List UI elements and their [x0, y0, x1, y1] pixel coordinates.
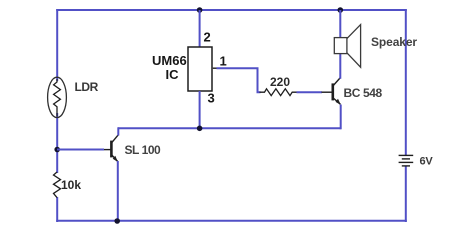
svg-text:2: 2 [204, 30, 211, 45]
node pin3 junction [197, 126, 203, 132]
node base junction [54, 147, 60, 153]
wire SL100 collector up [117, 127, 119, 135]
wire resistor to BC548 base [297, 91, 323, 93]
wire pin1 to resistor [217, 68, 261, 92]
speaker LS1 [334, 25, 360, 68]
wire right rail upper [405, 9, 407, 155]
wire SL100 emitter down [117, 161, 119, 222]
svg-text:IC: IC [166, 67, 180, 82]
node emitter-bottom junction [114, 218, 120, 224]
wire left rail upper [56, 9, 58, 81]
svg-text:Speaker: Speaker [371, 35, 417, 49]
wire bottom rail [56, 220, 407, 222]
wire SL100 base [57, 149, 104, 151]
svg-text:BC 548: BC 548 [344, 86, 383, 100]
IC U1 UM66 body [188, 47, 212, 91]
wire speaker/collector [339, 10, 341, 79]
node speaker junction [338, 7, 344, 13]
wire left rail lower [56, 197, 58, 222]
pin 1 stub [213, 67, 218, 69]
svg-text:220: 220 [270, 75, 290, 89]
LDR [48, 77, 67, 117]
svg-text:6V: 6V [420, 155, 434, 167]
node pin2 junction [197, 7, 203, 13]
svg-text:UM66: UM66 [152, 53, 187, 68]
transistor Q1 SL 100 [104, 135, 118, 162]
wire UM66 pin3 [199, 91, 201, 129]
svg-text:SL 100: SL 100 [125, 143, 162, 157]
resistor R 220 [260, 89, 298, 96]
svg-text:3: 3 [208, 91, 215, 106]
wire middle rail [118, 127, 341, 129]
wire left rail middle [56, 113, 58, 173]
wire top rail [56, 9, 407, 11]
wire UM66 pin2 [199, 10, 201, 48]
wire right rail lower [405, 166, 407, 222]
svg-text:LDR: LDR [75, 80, 99, 94]
svg-text:1: 1 [220, 54, 227, 69]
transistor Q2 BC 548 [322, 78, 341, 105]
resistor R 10k [54, 172, 61, 198]
wire BC548 emitter down [340, 105, 342, 130]
battery BT1 6V [399, 155, 414, 166]
svg-text:10k: 10k [61, 178, 81, 192]
